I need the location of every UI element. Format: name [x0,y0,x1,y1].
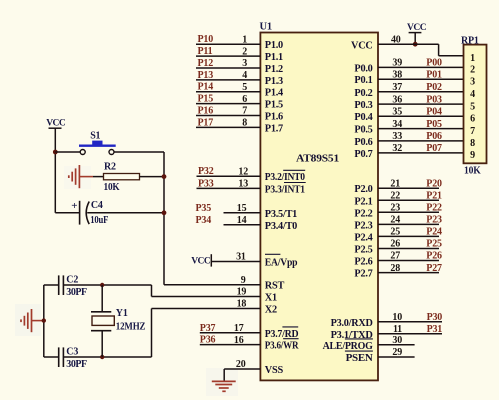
svg-text:29: 29 [392,347,402,358]
svg-text:33: 33 [392,131,402,142]
svg-text:P0.4: P0.4 [354,112,372,123]
wire pin 24 net P23 [378,215,442,226]
pin name P3.5/T1 [265,209,297,220]
svg-text:P26: P26 [426,251,442,262]
pin names P2.0-P2.7 inside chip [354,184,372,279]
svg-text:P07: P07 [426,143,442,154]
wire pin 31 EA/Vpp [211,252,260,263]
wire pin 16 net P36 [200,335,261,346]
junction node VCC/pin40 [413,42,418,47]
svg-text:17: 17 [234,323,244,334]
svg-text:20: 20 [236,359,246,370]
resistor R2 10K [93,162,164,193]
AT89S51 part name [296,152,339,164]
svg-text:C4: C4 [91,200,103,211]
svg-text:3: 3 [470,77,475,88]
wire pin 9 RST [164,275,260,286]
svg-text:P10: P10 [198,34,214,45]
pin name P3.3/INT1 [265,183,306,196]
svg-text:P16: P16 [198,106,214,117]
svg-text:12MHZ: 12MHZ [116,321,146,332]
svg-text:P2.4: P2.4 [354,232,372,243]
svg-text:P2.3: P2.3 [354,220,372,231]
svg-text:P1.1: P1.1 [265,52,283,63]
pin name VSS [265,365,284,376]
svg-text:P0.5: P0.5 [354,125,372,136]
svg-text:6: 6 [242,94,247,105]
pin name ALE/PROG [323,339,373,352]
wire pin 10 net P30 [378,312,442,323]
pin name X1 [265,293,277,304]
wire pin 29 PSEN [378,347,415,358]
svg-text:P23: P23 [426,215,442,226]
wire pin 8 net P17 [196,117,260,128]
svg-text:5: 5 [470,101,475,112]
svg-text:14: 14 [237,215,247,226]
pin name P3.4/T0 [265,221,297,232]
svg-text:P3.0/RXD: P3.0/RXD [331,318,373,329]
svg-text:P01: P01 [426,69,442,80]
svg-text:39: 39 [392,58,402,69]
svg-text:P1.7: P1.7 [265,123,283,134]
svg-text:6: 6 [470,114,475,125]
wire pin 32 net P07 [378,143,464,154]
svg-text:24: 24 [390,215,400,226]
svg-text:32: 32 [392,143,402,154]
wire pin 3 net P12 [196,58,260,69]
wire C2 net step down to X1 [151,285,153,297]
svg-text:VCC: VCC [407,23,427,33]
svg-text:7: 7 [470,126,475,137]
svg-text:P24: P24 [426,227,442,238]
wire VCC vertical to C4 [54,128,56,213]
svg-text:30PF: 30PF [66,287,87,298]
svg-text:P36: P36 [200,335,216,346]
svg-text:P20: P20 [426,178,442,189]
junction node C2/crystal top [100,283,104,287]
svg-text:P22: P22 [426,203,442,214]
svg-text:25: 25 [390,227,400,238]
pin name P3.6/WR [265,339,299,352]
power ground symbol at crystal [21,309,44,332]
svg-text:P3.6/WR: P3.6/WR [265,341,299,352]
svg-text:P12: P12 [198,58,214,69]
svg-text:P0.6: P0.6 [354,137,372,148]
svg-text:4: 4 [242,70,247,81]
svg-text:RP1: RP1 [461,36,479,47]
svg-text:10K: 10K [104,182,120,193]
capacitor C3 30PF [44,347,152,370]
wire pin 1 net P10 [196,34,260,45]
wire pin 36 net P03 [378,94,464,105]
svg-text:PSEN: PSEN [346,353,374,364]
svg-text:38: 38 [392,69,402,80]
wire C3 net step up to X2 [151,309,153,358]
wire pin 2 net P11 [196,46,260,57]
svg-text:P0.7: P0.7 [354,149,372,160]
svg-text:22: 22 [390,191,400,202]
svg-text:P0.0: P0.0 [354,63,372,74]
svg-text:VSS: VSS [265,365,284,376]
wire pin 12 net P32 [197,166,261,177]
svg-text:VCC: VCC [191,257,211,267]
wire S1 to reset net vertical [114,152,164,285]
svg-text:C2: C2 [66,275,78,286]
wire pin 21 net P20 [378,178,442,189]
svg-text:P13: P13 [198,70,214,81]
pin name P3.7/RD [265,327,299,340]
svg-text:P06: P06 [426,131,442,142]
svg-text:7: 7 [242,106,247,117]
svg-text:16: 16 [234,335,244,346]
svg-text:36: 36 [392,94,402,105]
wire pin 4 net P13 [196,70,260,81]
U1 AT89S51 chip body [260,33,378,381]
U1 designator label [260,22,272,33]
VCC power symbol top right [407,23,427,44]
svg-text:P2.2: P2.2 [354,208,372,219]
svg-text:P3.5/T1: P3.5/T1 [265,209,297,220]
pin name P3.0/RXD [331,318,373,329]
svg-text:P37: P37 [200,323,216,334]
pin name P3.2/INT0 [265,170,305,183]
wire pin 35 net P04 [378,106,464,117]
wire pin 28 net P27 [378,263,442,274]
RP1 pin numbers 1-9 [470,53,475,161]
svg-text:9: 9 [241,275,246,286]
wire pin 39 net P00 [378,58,464,69]
svg-text:13: 13 [238,179,248,190]
wire pin 38 net P01 [378,69,464,80]
svg-text:10K: 10K [464,166,481,177]
wire pin 14 net P34 [196,215,261,226]
svg-text:P34: P34 [196,215,212,226]
svg-text:+: + [71,200,77,212]
junction node VCC/S1 [53,150,58,155]
svg-text:P2.6: P2.6 [354,257,372,268]
VCC power symbol at EA/Vpp pin 31 [191,254,211,266]
svg-text:AT89S51: AT89S51 [296,152,339,164]
wire pin 19 X1 [152,287,261,298]
svg-text:P15: P15 [198,94,214,105]
switch S1 pushbutton [79,131,116,155]
svg-text:X1: X1 [265,293,277,304]
svg-text:P35: P35 [196,203,212,214]
svg-text:18: 18 [237,299,247,310]
svg-text:P1.4: P1.4 [265,88,283,99]
svg-text:37: 37 [392,82,402,93]
wire crystal left vertical [43,285,45,357]
ground symbol below VSS [212,381,236,391]
svg-text:1: 1 [242,34,247,45]
pin name EA/Vpp [265,254,298,268]
wire pin 7 net P16 [196,106,260,117]
svg-text:34: 34 [392,119,402,130]
svg-text:8: 8 [242,118,247,129]
svg-text:P05: P05 [426,119,442,130]
svg-text:12: 12 [238,166,248,177]
wire pin 33 net P06 [378,131,464,142]
svg-text:5: 5 [242,82,247,93]
wire pin 34 net P05 [378,119,464,130]
RP1 value 10K [464,166,481,177]
svg-text:P2.7: P2.7 [354,269,372,280]
svg-text:P1.2: P1.2 [265,64,283,75]
svg-text:X2: X2 [265,305,277,316]
svg-text:26: 26 [390,239,400,250]
svg-text:1: 1 [470,53,475,64]
wire pin 26 net P25 [378,239,442,250]
svg-text:P33: P33 [198,178,214,189]
wire pin 11 net P31 [378,324,442,335]
svg-text:4: 4 [470,89,475,100]
svg-text:RST: RST [265,281,285,292]
wire pin 6 net P15 [196,94,260,105]
svg-text:R2: R2 [104,162,116,173]
svg-text:P32: P32 [198,166,214,177]
svg-text:P0.1: P0.1 [354,75,372,86]
pin name X2 [265,305,277,316]
resistor pack RP1 body [464,45,487,164]
svg-text:23: 23 [390,203,400,214]
pin name PSEN [345,351,374,364]
wire VCC to S1 [55,151,80,153]
svg-text:10: 10 [392,312,402,323]
svg-text:P3.2/INT0: P3.2/INT0 [265,172,305,183]
svg-text:EA/Vpp: EA/Vpp [265,258,298,269]
svg-text:P3.7/RD: P3.7/RD [265,329,299,340]
svg-text:2: 2 [242,46,247,57]
capacitor C2 30PF [44,275,152,298]
svg-text:P30: P30 [427,312,443,323]
svg-text:VCC: VCC [46,119,66,129]
junction node C4/reset net [162,210,167,215]
svg-text:U1: U1 [260,22,272,33]
svg-text:C3: C3 [66,347,78,358]
wire pin 40 VCC to RP1 pin 1 [378,34,464,55]
svg-text:P11: P11 [198,46,213,57]
wire pin 13 net P33 [197,178,261,189]
pin names P0.0-P0.7 inside chip [354,63,372,159]
svg-text:P00: P00 [426,58,442,69]
power ground symbol at R2 [69,165,93,188]
pin name RST [265,281,285,292]
capacitor C4 10uF polarized [55,200,164,226]
svg-text:P0.2: P0.2 [354,88,372,99]
svg-text:11: 11 [393,324,402,335]
svg-text:P27: P27 [426,263,442,274]
svg-text:P04: P04 [426,106,442,117]
wire pin 37 net P02 [378,82,464,93]
svg-text:P3.4/T0: P3.4/T0 [265,221,297,232]
svg-text:21: 21 [390,178,400,189]
svg-text:P1.6: P1.6 [265,112,283,123]
svg-text:28: 28 [390,263,400,274]
svg-text:P21: P21 [426,191,442,202]
svg-text:P2.5: P2.5 [354,245,372,256]
wire pin 23 net P22 [378,203,442,214]
svg-text:VCC: VCC [351,40,373,51]
svg-text:P02: P02 [426,82,442,93]
svg-text:P31: P31 [427,324,443,335]
svg-text:P1.0: P1.0 [265,40,283,51]
pin names P1.0-P1.7 inside chip [265,40,283,134]
svg-text:P1.3: P1.3 [265,76,283,87]
svg-text:P0.3: P0.3 [354,100,372,111]
svg-text:15: 15 [237,203,247,214]
wire pin 30 ALE/PROG [378,335,415,346]
svg-text:10uF: 10uF [90,215,108,226]
crystal Y1 12MHZ [91,285,146,357]
svg-text:9: 9 [470,150,475,161]
svg-text:40: 40 [391,34,401,45]
junction node C3/crystal bottom [100,355,104,359]
svg-text:P03: P03 [426,94,442,105]
svg-text:P25: P25 [426,239,442,250]
wire pin 22 net P21 [378,191,442,202]
svg-text:P14: P14 [198,82,214,93]
svg-text:S1: S1 [90,131,100,142]
wire pin 17 net P37 [200,323,261,334]
RP1 designator [461,36,479,47]
svg-text:3: 3 [242,58,247,69]
wire pin 18 X2 [152,299,261,310]
pin name P3.1/TXD [331,330,373,341]
junction node ground/crystal vertical [42,318,46,322]
wire pin 5 net P14 [196,82,260,93]
svg-text:2: 2 [470,65,475,76]
wire pin 25 net P24 [378,227,442,238]
svg-text:P2.1: P2.1 [354,196,372,207]
wire pin 27 net P26 [378,251,442,262]
svg-text:P1.5: P1.5 [265,100,283,111]
junction node R2/reset net [162,174,167,179]
wire pin 15 net P35 [196,203,261,214]
svg-text:30: 30 [392,335,402,346]
svg-text:19: 19 [237,287,247,298]
wire pin 20 VSS [224,359,260,382]
svg-text:P2.0: P2.0 [354,184,372,195]
svg-text:P3.3/INT1: P3.3/INT1 [265,184,305,195]
svg-text:35: 35 [392,106,402,117]
svg-text:31: 31 [236,252,246,263]
svg-text:P17: P17 [198,117,214,128]
svg-text:ALE/PROG: ALE/PROG [323,341,373,352]
svg-text:27: 27 [390,251,400,262]
VCC power symbol top left [46,119,66,129]
svg-text:30PF: 30PF [66,359,87,370]
svg-text:8: 8 [470,138,475,149]
svg-text:Y1: Y1 [116,308,128,319]
pin name VCC (chip) [351,40,373,51]
